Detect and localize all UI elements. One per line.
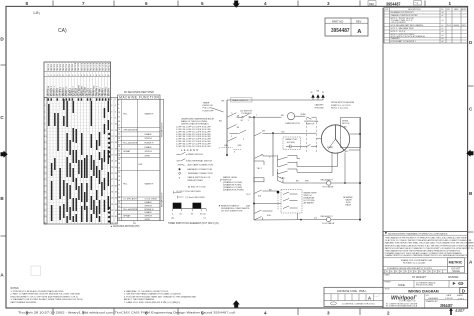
- timer chart header band: [44, 62, 111, 98]
- bottom right bold tick: [450, 308, 452, 315]
- capacitor C1: [283, 137, 301, 150]
- svg-text:+ - + *: + - + *: [375, 296, 380, 298]
- svg-text:* 1: * 1: [415, 1, 419, 5]
- svg-text:TITLE: TITLE: [385, 289, 391, 291]
- timer contacts on bus: [227, 113, 246, 142]
- svg-text:AFFECT THE TIMER DRAWING: AFFECT THE TIMER DRAWING: [124, 298, 155, 301]
- motor right connection + junction: [350, 133, 360, 135]
- svg-text:x3: x3: [442, 38, 444, 40]
- svg-text:MANUFAC TURK REFLECTING SHALL: MANUFAC TURK REFLECTING SHALL TRULY AND …: [385, 242, 474, 245]
- small relay box on bus: [254, 178, 264, 182]
- top zone ticks and numbers: [53, 1, 425, 7]
- svg-text:A: A: [357, 29, 362, 35]
- svg-text:REV: REV: [356, 19, 362, 23]
- svg-text:TM: TM: [415, 296, 418, 298]
- svg-text:A: A: [368, 296, 371, 301]
- left zone letters: [0, 37, 4, 278]
- svg-text:DATE: DATE: [454, 8, 459, 11]
- svg-text:WIRING DIAGRAM: WIRING DIAGRAM: [408, 289, 439, 293]
- left center arrow: [1, 151, 8, 158]
- svg-text:x6: x6: [442, 41, 444, 43]
- svg-text:x4: x4: [442, 12, 444, 14]
- svg-text:3. DIAGRAM TO BE FOLDED IN HA: 3. DIAGRAM TO BE FOLDED IN HALF THREE TI…: [11, 298, 83, 301]
- timer chart header rotated labels: [48, 85, 110, 97]
- drive motor M2: [341, 118, 361, 148]
- water level switch text: [223, 176, 244, 192]
- svg-text:X±: X±: [405, 271, 407, 273]
- svg-text:NOTE 2 - WAS SAME THRU: NOTE 2 - WAS SAME THRU: [391, 27, 415, 30]
- svg-text:APPR: APPR: [462, 8, 468, 11]
- svg-text:USED: USED: [385, 275, 391, 277]
- water valve note: [346, 196, 354, 207]
- svg-text:DESCRIPTION: DESCRIPTION: [408, 9, 421, 11]
- svg-text:3954487: 3954487: [331, 28, 350, 34]
- svg-text:CORPORATION: CORPORATION: [399, 300, 416, 303]
- svg-text:DR: DR: [447, 9, 450, 11]
- svg-text:4. MATERIAL: 27 # 80 WHITE OF: 4. MATERIAL: 27 # 80 WHITE OFFSET STOCK: [124, 290, 169, 293]
- svg-text:DR: DR: [426, 295, 429, 297]
- svg-text:X±: X±: [414, 271, 416, 273]
- svg-text:x5: x5: [442, 31, 444, 33]
- svg-text:X±: X±: [424, 271, 426, 273]
- timer switch bus: [226, 100, 228, 155]
- drive motor ratings text: [331, 102, 355, 109]
- timer chart black bars: [48, 99, 109, 223]
- svg-text:CHANGED: CHANGED: [391, 37, 401, 40]
- svg-text:DATABASE CODE PWB-1: DATABASE CODE PWB-1: [337, 290, 367, 293]
- timer knob note: [203, 102, 215, 112]
- svg-text:NOTES:: NOTES:: [11, 288, 20, 290]
- svg-text:LTR: LTR: [385, 9, 389, 11]
- svg-text:X±: X±: [419, 271, 421, 273]
- svg-text:Thu Feb 28 10:57:19 2002 - lib: Thu Feb 28 10:57:19 2002 - library1.sdd.…: [18, 311, 235, 315]
- bottom center arrow: [233, 300, 240, 307]
- svg-text:X±: X±: [429, 271, 431, 273]
- svg-text:3954487: 3954487: [386, 1, 401, 6]
- machine function table: [118, 95, 161, 221]
- junction: bus end dot: [226, 154, 228, 156]
- svg-text:NOTE 2 - .05 (2.3): NOTE 2 - .05 (2.3): [391, 31, 406, 33]
- svg-text:5. SEE FIXTURE PANEL DRAWING: 5. SEE FIXTURE PANEL DRAWING FOR LABEL L…: [124, 293, 181, 296]
- size letter D: [460, 288, 468, 294]
- part number above revision table: [368, 1, 376, 6]
- cold valve line: [254, 219, 360, 221]
- part no / rev box: [325, 18, 368, 36]
- svg-text:RELEASED FOR PRODUCT: RELEASED FOR PRODUCT: [391, 11, 415, 14]
- svg-text:X±: X±: [390, 271, 392, 273]
- right zone letters: [469, 40, 473, 265]
- svg-text:DRAWING NO: DRAWING NO: [426, 300, 438, 303]
- motor lower wires to switch cluster: [300, 153, 338, 167]
- right column divider: [382, 8, 384, 309]
- svg-text:x7: x7: [442, 25, 444, 27]
- svg-text:NOTE RELEASE PART INFO DRAWING: NOTE RELEASE PART INFO DRAWING: [391, 24, 424, 27]
- svg-text:6. FOR USE WITH 3954485 TIMER: 6. FOR USE WITH 3954485 TIMER. ANY CHANG…: [124, 295, 197, 298]
- svg-text:DATE: DATE: [447, 294, 452, 297]
- svg-text:2. PART TO HAVE PRINTING ON B: 2. PART TO HAVE PRINTING ON BOTH SIDES A…: [11, 293, 81, 296]
- svg-text:PROJECTION USED: PROJECTION USED: [416, 285, 434, 287]
- junction on bus: [253, 203, 255, 205]
- legal paragraph: [385, 237, 474, 258]
- timer chart column lines: [47, 62, 111, 224]
- water temp switch box: [281, 190, 302, 214]
- timer chart left step column: [44, 98, 47, 225]
- hot valve line: [283, 182, 360, 184]
- svg-text:FINISH: FINISH: [385, 282, 392, 284]
- timer chart diamond markers: [108, 133, 111, 224]
- svg-text:X±: X±: [438, 271, 440, 273]
- svg-text:PART NUMBER SHOWING.: PART NUMBER SHOWING.: [11, 301, 38, 304]
- svg-text:SCALE: SCALE: [452, 270, 460, 273]
- svg-text:X±: X±: [400, 271, 402, 273]
- svg-text:(W) A REGISTERED TRADEMARK OF: (W) A REGISTERED TRADEMARK OF WHIRLPOOL …: [388, 232, 448, 235]
- svg-text:SHEET: SHEET: [457, 295, 464, 297]
- svg-text:X±: X±: [395, 271, 397, 273]
- svg-text:DO NOT: DO NOT: [452, 268, 462, 270]
- svg-text:X±: X±: [410, 271, 412, 273]
- svg-text:FILE (AVL) 1-1-2-.00-.(AV): FILE (AVL) 1-1-2-.00-.(AV): [403, 262, 426, 265]
- svg-text:CHANGE LOCATION OF NOTES: CHANGE LOCATION OF NOTES: [391, 14, 419, 17]
- svg-text:x3: x3: [442, 20, 444, 22]
- svg-text:1.59 (1.8) DELETE: 1.59 (1.8) DELETE: [391, 22, 407, 24]
- right bus N: [359, 118, 361, 221]
- cabinet ground arrows: [311, 94, 324, 100]
- main bus 2 (from lid switch down): [253, 116, 255, 118]
- svg-text:x0: x0: [442, 35, 444, 37]
- trademark line: [385, 232, 387, 234]
- database code strip table: [324, 287, 383, 306]
- aux bus from 2M wire down: [272, 133, 274, 176]
- svg-text:ECN 0654AB7 TO REVISION 1: ECN 0654AB7 TO REVISION 1: [391, 40, 416, 43]
- svg-text:x7: x7: [442, 15, 444, 17]
- svg-text:| CONTROL CONNECTOR DT1C: | CONTROL CONNECTOR DT1C: [342, 304, 375, 306]
- svg-text:4487: 4487: [455, 308, 465, 313]
- svg-text:1-23-02: 1-23-02: [445, 298, 453, 300]
- svg-text:3954487: 3954487: [440, 303, 453, 308]
- agitation note block: [176, 117, 215, 148]
- svg-text:03/11: 03/11: [462, 25, 466, 27]
- svg-text:P-01: P-01: [447, 25, 451, 27]
- svg-text:CHARACTERISTICS UNLESS OTHERWI: CHARACTERISTICS UNLESS OTHERWISE PERMITT…: [385, 254, 469, 257]
- svg-text:LS040602: LS040602: [428, 298, 439, 300]
- speed/agitate switch cluster: [254, 155, 300, 183]
- svg-text:ENGLISH (SHEET 1 OF 2). OPPOSI: ENGLISH (SHEET 1 OF 2). OPPOSITE SIDE FR…: [11, 296, 78, 298]
- svg-text:TD WASART: TD WASART: [412, 276, 426, 279]
- right center arrow: [466, 150, 473, 157]
- projection symbols: [453, 282, 456, 285]
- hot valve solenoid: [327, 181, 331, 185]
- revision table: [384, 8, 468, 44]
- svg-text:X±: X±: [434, 271, 436, 273]
- svg-text:1. PRINTING TO BE BLACK ON WH: 1. PRINTING TO BE BLACK ON WHITE BACKGRO…: [11, 290, 65, 293]
- svg-text:7. LABEL FULL SIZE: 558.80 (M: 7. LABEL FULL SIZE: 558.80 (MM) 431.8 MM…: [124, 301, 180, 304]
- timer chart row lines: [44, 98, 111, 225]
- wire: top bus L1: [227, 99, 323, 101]
- contact 2M to motor: [254, 133, 307, 137]
- timer circuit label: [231, 98, 253, 102]
- svg-text:PARTS NO FURTHER USE NOT GRANT: PARTS NO FURTHER USE NOT GRANTED TO THE …: [385, 247, 474, 250]
- svg-text:REF: REF: [369, 2, 375, 6]
- timer chart right number strip: [111, 98, 118, 225]
- cold valve solenoid: [327, 217, 331, 221]
- pressure switch contact + square junction: [254, 190, 279, 194]
- timer chart first-row cells: [48, 98, 110, 100]
- svg-text:LS0406: LS0406: [453, 25, 459, 27]
- faint scan artifact box: [31, 266, 41, 276]
- title block: [383, 232, 468, 309]
- lower timer contacts: [254, 210, 273, 220]
- svg-text:D: D: [462, 289, 466, 294]
- svg-text:NONE: NONE: [398, 284, 405, 287]
- svg-text:x2: x2: [442, 28, 444, 30]
- svg-text:LG: LG: [441, 9, 444, 11]
- notes block: [11, 288, 197, 304]
- svg-text:THIS DRAWING IS THE PROPERTY O: THIS DRAWING IS THE PROPERTY OF WHIRLPOO…: [385, 237, 468, 240]
- bottom zone ticks and numbers: [53, 308, 360, 315]
- remote energy note: [221, 206, 250, 213]
- svg-text:PART NO: PART NO: [332, 19, 343, 23]
- svg-text:METRIC: METRIC: [449, 261, 463, 265]
- svg-text:1 OF 1: 1 OF 1: [458, 298, 465, 300]
- dashed aux contacts: [222, 148, 242, 150]
- svg-text:X±: X±: [386, 271, 388, 273]
- top center arrow: [233, 1, 240, 8]
- table rotated side column: [160, 99, 164, 220]
- svg-text:ST. JOSEPH, MICHIGAN 49085 U.S: ST. JOSEPH, MICHIGAN 49085 U.S.A.: [386, 305, 418, 308]
- svg-text:WASHER: WASHER: [448, 276, 459, 279]
